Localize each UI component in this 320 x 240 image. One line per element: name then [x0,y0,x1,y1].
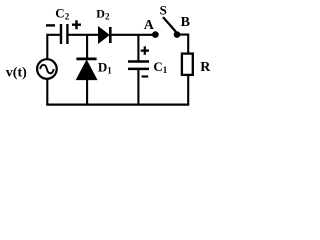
wire: resistor bottom to bottom rail [187,76,189,105]
polarity plus of C1 [141,46,149,54]
wire: C1 bottom lead [137,70,139,105]
polarity minus of C2 [46,24,55,26]
diode D2 (anode left, cathode right) [99,27,111,43]
wire: C1 top lead [137,35,139,61]
diode D1 (cathode bar on top, triangle pointing up) [76,59,96,80]
svg-text:B: B [181,15,190,30]
wire: C2 to D2 [69,34,100,36]
wire: D1 top lead [86,35,88,58]
svg-text:S: S [160,3,167,18]
voltage source sine symbol [40,65,54,74]
wire: bottom rail [46,103,189,105]
wire: node B to resistor top [180,35,188,53]
svg-text:A: A [144,18,155,33]
capacitor C1 plates [128,62,149,69]
svg-text:v(t): v(t) [6,66,27,81]
polarity minus of C1 [142,75,149,77]
node A junction dot [152,31,159,38]
wire: D1 bottom lead [86,79,88,105]
switch pivot dot (node B) [174,31,181,38]
svg-text:C2: C2 [55,5,69,21]
switch S arm [163,17,176,32]
svg-text:D1: D1 [98,59,112,75]
capacitor C2 plates [61,24,67,44]
wire: source bottom lead [46,79,48,105]
svg-text:D2: D2 [96,7,110,22]
resistor R body [182,54,193,75]
wire: source top lead and top-left corner [47,35,60,59]
svg-text:C1: C1 [153,59,167,75]
wire: D2 to node A [111,34,153,36]
svg-text:R: R [200,60,211,75]
polarity plus of C2 [72,20,81,29]
voltage source v(t) circle [37,59,57,79]
